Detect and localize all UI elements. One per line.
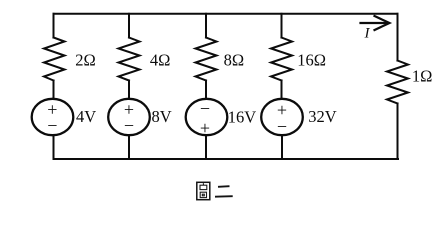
wire branch4 mid lead	[281, 81, 283, 100]
svg-text:−: −	[124, 116, 134, 136]
svg-text:32V: 32V	[308, 107, 337, 126]
wire branch4 bottom lead	[281, 135, 283, 159]
svg-text:−: −	[47, 116, 57, 136]
wire branch4 top lead	[281, 14, 283, 38]
wire branch1 mid lead	[53, 81, 55, 100]
source V2 8V	[108, 99, 150, 135]
wire branch3 bottom lead	[205, 135, 207, 159]
wire branch3 mid lead	[205, 81, 207, 100]
resistor R2 4ohm	[119, 38, 140, 81]
resistor R5 1ohm	[387, 61, 408, 104]
current arrow I	[361, 16, 390, 30]
resistor R3 8ohm	[196, 38, 217, 81]
wire branch2 bottom lead	[128, 135, 130, 159]
svg-text:2Ω: 2Ω	[75, 51, 96, 70]
wire branch1 top lead	[53, 14, 55, 38]
wire bottom bus	[54, 158, 399, 160]
caption figure-2 char TU	[197, 182, 210, 199]
svg-text:8Ω: 8Ω	[224, 51, 245, 70]
wire branch3 top lead	[205, 14, 207, 38]
svg-text:+: +	[200, 118, 210, 138]
svg-text:16V: 16V	[228, 107, 256, 126]
svg-text:−: −	[277, 117, 287, 137]
caption figure-2 char ER	[215, 186, 233, 197]
svg-text:I: I	[364, 26, 371, 42]
wire branch2 mid lead	[128, 81, 130, 100]
wire branch2 top lead	[128, 14, 130, 38]
resistor R1 2ohm	[44, 38, 65, 81]
wire right bottom lead	[397, 104, 399, 160]
wire top bus	[54, 13, 398, 15]
source V4 32V	[261, 99, 303, 135]
svg-text:8V: 8V	[152, 107, 172, 126]
wire right top lead	[397, 14, 399, 61]
source V1 4V	[32, 99, 74, 135]
svg-text:−: −	[200, 98, 210, 118]
svg-text:16Ω: 16Ω	[297, 50, 326, 69]
svg-text:4V: 4V	[76, 107, 96, 126]
source V3 16V	[186, 99, 228, 135]
resistor R4 16ohm	[271, 38, 292, 81]
svg-text:4Ω: 4Ω	[150, 51, 171, 70]
svg-text:1Ω: 1Ω	[412, 67, 433, 86]
wire branch1 bottom lead	[53, 135, 55, 159]
